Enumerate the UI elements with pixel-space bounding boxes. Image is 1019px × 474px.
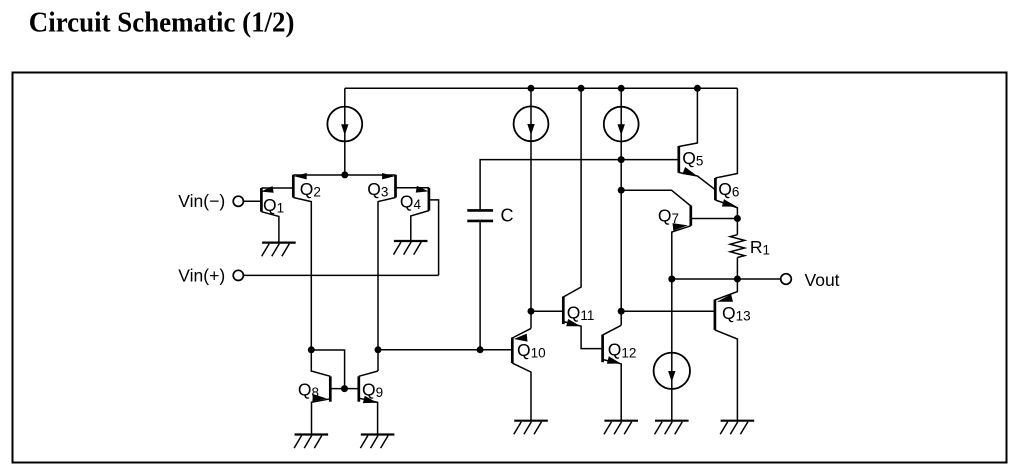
node Q10e-Q11base junction bbox=[528, 308, 535, 315]
ground under Q10 bbox=[514, 421, 548, 435]
svg-text:Q13: Q13 bbox=[722, 303, 751, 324]
transistor Q2 bbox=[293, 173, 311, 350]
wire C bottom lead bbox=[479, 221, 481, 350]
transistor Q6 bbox=[715, 88, 737, 218]
svg-text:Q10: Q10 bbox=[517, 340, 546, 361]
label Q12 bbox=[608, 340, 637, 361]
ground under Q13 bbox=[720, 421, 754, 435]
node mirror base junction bbox=[341, 385, 348, 392]
current source I4 bbox=[654, 353, 690, 389]
svg-text:Vin(+): Vin(+) bbox=[178, 265, 225, 285]
wire Q10 base line bbox=[378, 349, 512, 351]
transistor Q4 bbox=[396, 186, 439, 276]
transistor Q11 bbox=[563, 88, 602, 348]
label Q8 bbox=[298, 380, 319, 401]
wire CS3 vertical bbox=[620, 88, 622, 325]
svg-text:C: C bbox=[501, 206, 514, 226]
transistor Q12 bbox=[603, 325, 622, 420]
svg-text:Circuit Schematic (1/2): Circuit Schematic (1/2) bbox=[29, 7, 295, 39]
label Q6 bbox=[718, 179, 739, 200]
ground under Q8 bbox=[294, 435, 328, 449]
resistor R1 bbox=[730, 219, 744, 280]
wire C top lead bbox=[480, 160, 679, 210]
wire Q11 base line bbox=[531, 310, 563, 312]
node Q7e-Vout junction bbox=[668, 276, 675, 283]
svg-text:Vin(−): Vin(−) bbox=[178, 191, 225, 211]
wire CS2 vertical bbox=[530, 88, 532, 328]
title text bbox=[29, 7, 295, 39]
label Q3 bbox=[367, 179, 388, 200]
ground under Q9 bbox=[360, 435, 394, 449]
wire Q2-Q3 emitter line bbox=[293, 174, 395, 176]
transistor Q13 bbox=[715, 279, 738, 421]
label Q1 bbox=[263, 195, 284, 216]
svg-text:Q11: Q11 bbox=[567, 303, 595, 324]
wire Vout line bbox=[672, 278, 781, 280]
svg-text:Q6: Q6 bbox=[718, 179, 739, 200]
label Q13 bbox=[722, 303, 751, 324]
terminal Vin+ bbox=[233, 270, 243, 280]
svg-text:Q1: Q1 bbox=[263, 195, 284, 216]
label Q10 bbox=[517, 340, 546, 361]
terminal Vin- bbox=[233, 196, 243, 206]
current source I1 bbox=[327, 107, 362, 142]
label Q2 bbox=[300, 179, 321, 200]
ground under I4 bbox=[655, 421, 689, 435]
transistor Q1 bbox=[243, 186, 293, 242]
wire CS1 vertical bbox=[344, 88, 346, 175]
terminal Vout bbox=[781, 274, 792, 285]
node bus-Q5 junction bbox=[694, 85, 701, 92]
svg-text:Q12: Q12 bbox=[608, 340, 637, 361]
capacitor C bbox=[467, 210, 493, 221]
svg-text:Q5: Q5 bbox=[682, 148, 703, 169]
svg-text:Q7: Q7 bbox=[658, 205, 679, 226]
node CS3-Cline junction bbox=[618, 156, 625, 163]
wire top supply bus bbox=[345, 87, 738, 89]
ground under Q12 bbox=[604, 421, 638, 435]
transistor Q8 bbox=[311, 350, 330, 435]
label Vin- bbox=[178, 191, 225, 211]
node bus-Q11 junction bbox=[578, 85, 585, 92]
svg-text:Q4: Q4 bbox=[400, 191, 422, 212]
svg-text:R1: R1 bbox=[750, 237, 770, 258]
label Q7 bbox=[658, 205, 679, 226]
ground under Q1 bbox=[262, 243, 296, 257]
transistor Q10 bbox=[512, 328, 531, 420]
label Q4 bbox=[400, 191, 422, 212]
label Q5 bbox=[682, 148, 703, 169]
node bus-CS3 junction bbox=[618, 85, 625, 92]
label R1 bbox=[750, 237, 770, 258]
transistor Q5 bbox=[679, 88, 716, 190]
transistor Q3 bbox=[378, 173, 396, 371]
current source I2 bbox=[514, 106, 549, 141]
node Q7-CS3 junction bbox=[618, 187, 625, 194]
svg-text:Q8: Q8 bbox=[298, 380, 319, 401]
wire Vin+ line bbox=[243, 274, 438, 276]
label Q9 bbox=[362, 380, 383, 401]
node bus-CS2 junction bbox=[528, 85, 535, 92]
node C-Q10base junction bbox=[477, 346, 484, 353]
node Q13base-CS3 junction bbox=[618, 308, 625, 315]
svg-text:Q3: Q3 bbox=[367, 179, 388, 200]
label C bbox=[501, 206, 514, 226]
svg-text:Q2: Q2 bbox=[300, 179, 321, 200]
label Vin+ bbox=[178, 265, 225, 285]
node tail junction bbox=[341, 171, 348, 178]
wire Q7 collector line bbox=[621, 190, 691, 206]
node Q2c-mirror junction bbox=[308, 346, 315, 353]
label Vout bbox=[805, 270, 840, 290]
wire mirror link bbox=[311, 350, 344, 389]
transistor Q7 bbox=[672, 206, 738, 421]
svg-text:Q9: Q9 bbox=[362, 380, 383, 401]
wire Q13 base line bbox=[621, 310, 715, 312]
node Q3c-mirror junction bbox=[375, 346, 382, 353]
label Q11 bbox=[567, 303, 595, 324]
node R1 top junction bbox=[734, 215, 741, 222]
transistor Q9 bbox=[359, 371, 378, 434]
wire Q8-Q9 base line bbox=[330, 388, 359, 390]
svg-text:Vout: Vout bbox=[805, 270, 840, 290]
current source I3 bbox=[604, 107, 639, 142]
ground under Q4 bbox=[394, 241, 428, 255]
node R1-Vout junction bbox=[734, 276, 741, 283]
